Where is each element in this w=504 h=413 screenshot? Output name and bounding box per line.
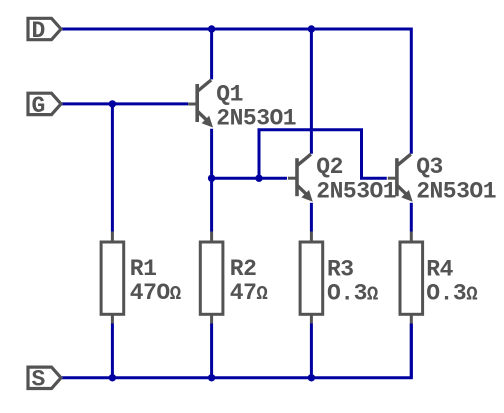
svg-text:R1: R1 (130, 256, 157, 282)
svg-text:Q1: Q1 (216, 81, 243, 107)
svg-text:2N53O1: 2N53O1 (216, 105, 296, 131)
svg-text:R3: R3 (327, 257, 354, 283)
svg-text:R4: R4 (426, 257, 453, 283)
svg-text:Q3: Q3 (416, 154, 443, 180)
svg-text:O.3Ω: O.3Ω (327, 280, 378, 306)
svg-text:S: S (32, 367, 46, 393)
svg-text:2N53O1: 2N53O1 (416, 178, 496, 204)
svg-text:2N53O1: 2N53O1 (316, 178, 396, 204)
svg-text:O.3Ω: O.3Ω (426, 280, 477, 306)
svg-text:Q2: Q2 (316, 154, 343, 180)
svg-text:R2: R2 (230, 256, 257, 282)
svg-text:D: D (32, 18, 46, 44)
svg-text:47Ω: 47Ω (230, 280, 268, 306)
svg-text:G: G (32, 93, 46, 119)
svg-text:47OΩ: 47OΩ (130, 280, 181, 306)
